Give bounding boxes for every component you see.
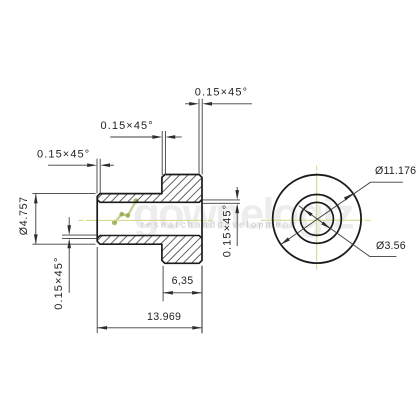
dimension: diameter 11.176	[281, 182, 403, 244]
svg-text:Ø4.757: Ø4.757	[18, 196, 30, 235]
dimension: flange top-right chamfer 0.15x45	[185, 99, 252, 175]
dimension: 13.969	[97, 247, 202, 333]
svg-text:0.15×45°: 0.15×45°	[101, 120, 154, 132]
dimension: flange top-left chamfer 0.15x45	[110, 131, 181, 175]
front view circles	[273, 175, 361, 263]
dimension: diameter 3.56	[299, 206, 397, 257]
dimension: left outer chamfer 0.15x45	[48, 159, 114, 194]
dimension: right bore chamfer 0.15x45 rotated	[203, 187, 240, 246]
svg-text:13.969: 13.969	[147, 311, 181, 323]
dimension: 6,35	[163, 266, 202, 333]
hatch lower half	[97, 236, 202, 264]
svg-text:0.15×45°: 0.15×45°	[37, 148, 90, 160]
bore edges	[97, 200, 202, 239]
section outline	[97, 175, 202, 264]
dimension: left bore chamfer 0.15x45 rotated	[62, 217, 97, 293]
front view centerlines	[316, 166, 318, 272]
svg-text:6,35: 6,35	[172, 275, 194, 287]
svg-text:Ø11.176: Ø11.176	[375, 165, 416, 177]
watermark zigzag logo	[115, 201, 137, 223]
hatch upper half	[97, 175, 202, 203]
svg-text:Ø3.56: Ø3.56	[376, 240, 406, 252]
svg-text:0.15×45°: 0.15×45°	[195, 87, 248, 99]
svg-text:0.15×45°: 0.15×45°	[53, 257, 65, 310]
dimension: diameter 4.757	[32, 194, 95, 245]
svg-text:0.15×45°: 0.15×45°	[222, 204, 234, 257]
section view centerline	[79, 219, 214, 221]
